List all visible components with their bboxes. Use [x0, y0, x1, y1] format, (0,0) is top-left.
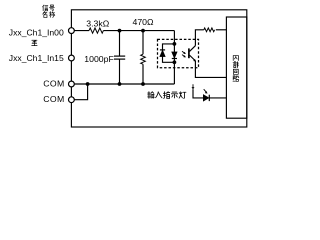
terminal COM2 [69, 97, 75, 103]
terminal In00 [69, 28, 75, 34]
node: opto LED bottom [173, 60, 177, 64]
resistor R1 3.3kOhm zigzag [89, 28, 103, 33]
terminal COM1 [69, 81, 75, 87]
label 信号 (signal) line1 [43, 5, 48, 11]
diode D2 (center, pointing down) [172, 52, 177, 58]
node: COM bus / COM2 jog [86, 82, 90, 86]
svg-text:COM: COM [43, 78, 64, 88]
svg-text:470Ω: 470Ω [133, 17, 154, 27]
phototransistor Q1 [188, 48, 190, 58]
wire: collector up and right [195, 30, 203, 46]
wire: 470 ohm branch lower [142, 64, 144, 84]
wire: R1 to corner [103, 30, 174, 32]
wire: R3 to internal box [216, 29, 227, 31]
node: COM bus / cap [118, 82, 122, 86]
internal circuit box U-internal [226, 17, 246, 118]
wire: capacitor branch lower [119, 59, 121, 84]
terminal In15 [69, 55, 75, 61]
label 至 (to) [32, 40, 37, 45]
wire: In00 top wire [71, 30, 89, 32]
diode D1 (left, pointing up) [160, 49, 165, 51]
svg-text:COM: COM [43, 94, 64, 104]
wire: COM2 jog [71, 84, 87, 100]
wire: emitter down and right [195, 61, 226, 77]
outer unit frame [71, 10, 246, 127]
node: top wire / 470 [141, 29, 145, 33]
node: opto LED top [173, 42, 177, 46]
wire: 470 ohm branch upper [142, 31, 144, 55]
light arrows to phototransistor [182, 51, 185, 53]
svg-text:3.3kΩ: 3.3kΩ [86, 19, 109, 29]
wire: capacitor branch upper [119, 31, 121, 56]
wire: LED pair left branch [163, 44, 175, 62]
node: COM bus / 470 [141, 82, 145, 86]
label 名称 (name) line2 [43, 11, 47, 17]
wire: COM bus horizontal [71, 83, 174, 85]
svg-text:1000pF: 1000pF [84, 54, 113, 64]
resistor R3 (collector) zigzag [204, 28, 215, 32]
emission arrow B [204, 89, 207, 92]
wire: LED branch [193, 89, 203, 98]
svg-text:Jxx_Ch1_In00: Jxx_Ch1_In00 [9, 28, 64, 38]
wire: opto LED drive line (vertical from top wire to COM wire) [173, 31, 175, 84]
label 输入指示灯 (input indicator) [148, 92, 155, 99]
label 内部回路 (internal circuit) vertical [233, 56, 238, 61]
capacitor C1 1000pF plates [114, 55, 125, 57]
optocoupler PC1 dashed box [158, 39, 199, 67]
svg-text:Jxx_Ch1_In15: Jxx_Ch1_In15 [9, 53, 64, 63]
wire: LED to internal box [209, 97, 226, 99]
LED D3 indicator [203, 95, 209, 101]
node: top wire / cap [118, 29, 122, 33]
resistor R2 470 Ohm zigzag vertical [141, 54, 146, 64]
terminal circles [69, 28, 75, 103]
junction dots [86, 29, 177, 86]
emission arrow A [192, 84, 194, 87]
CJK hand-drawn labels [32, 5, 239, 98]
